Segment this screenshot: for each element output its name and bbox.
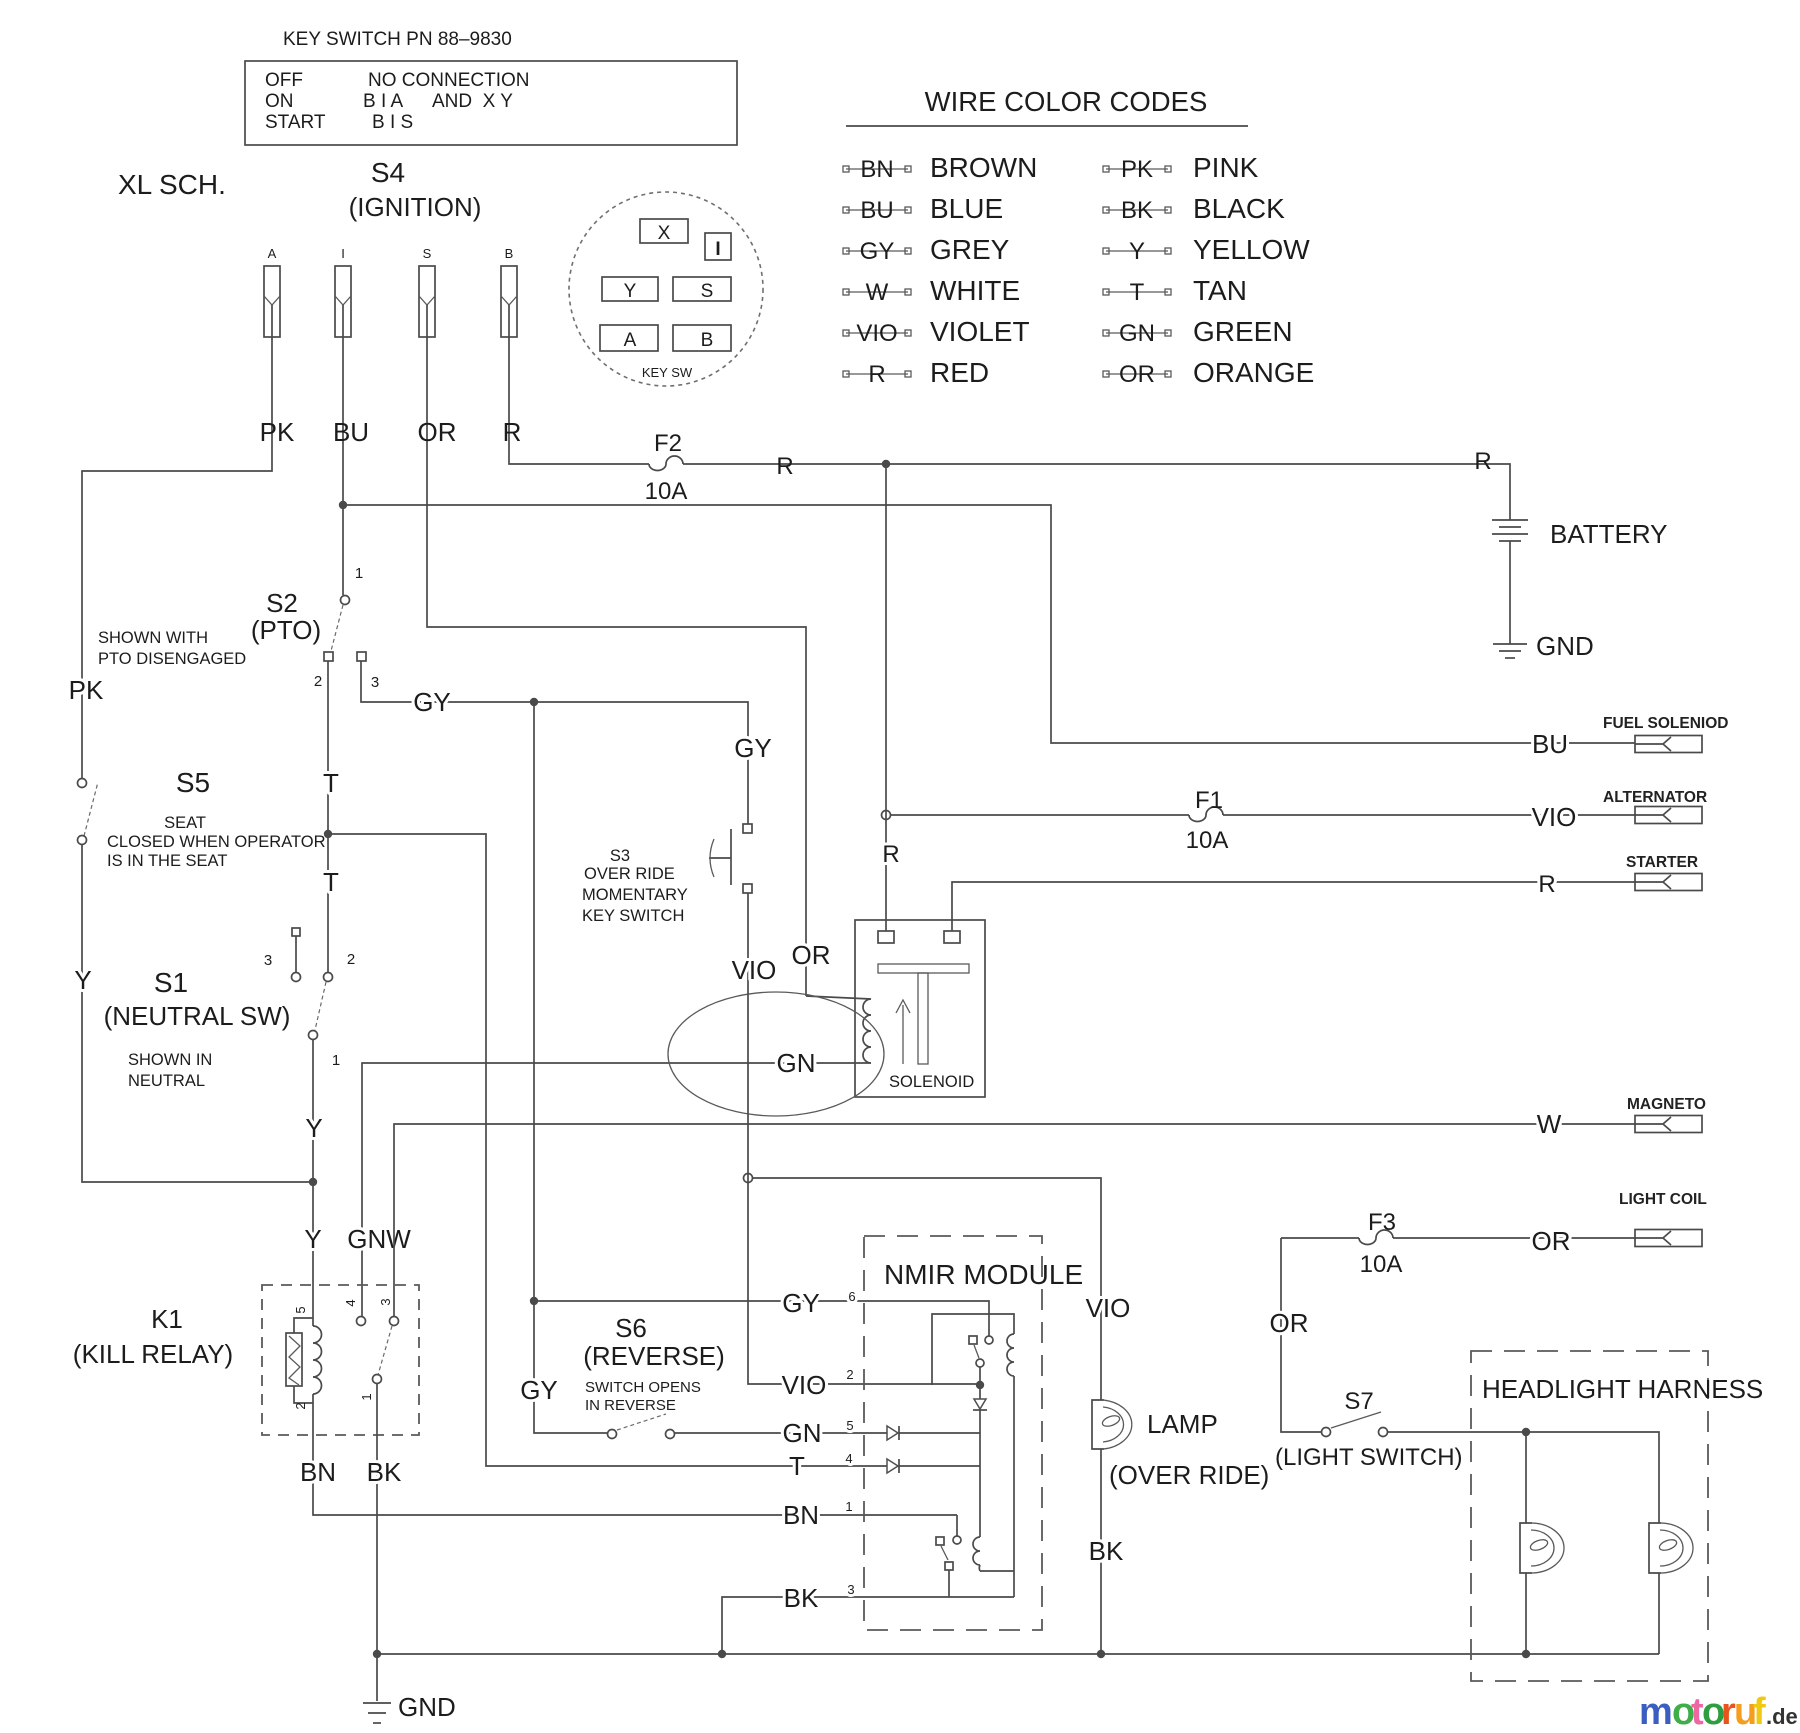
- key switch face circle: [569, 192, 763, 386]
- switch S6 left terminal: [608, 1430, 617, 1439]
- wire T branch to NMIR pin4: [328, 834, 887, 1466]
- svg-text:STARTER: STARTER: [1626, 854, 1698, 871]
- ground bus wire: [377, 1653, 1659, 1655]
- svg-text:BU: BU: [860, 197, 893, 224]
- svg-text:BK: BK: [1121, 197, 1153, 224]
- svg-text:(LIGHT SWITCH): (LIGHT SWITCH): [1275, 1444, 1463, 1471]
- svg-text:PK: PK: [1121, 156, 1153, 183]
- NMIR diode vertical: [979, 1385, 981, 1399]
- switch S1 common terminal: [309, 1031, 318, 1040]
- fuse F1: [1189, 807, 1223, 822]
- switch S6 blade: [617, 1414, 666, 1430]
- switch S2 pin 1 terminal: [341, 596, 350, 605]
- svg-text:BU: BU: [1532, 729, 1568, 759]
- ground symbol bottom: [363, 1702, 391, 1704]
- svg-text:10A: 10A: [645, 478, 688, 505]
- svg-text:R: R: [882, 841, 899, 868]
- svg-text:GY: GY: [860, 238, 895, 265]
- svg-text:GY: GY: [782, 1288, 820, 1318]
- tap circle for F1 feed: [882, 811, 891, 820]
- wire BK from K1 common to ground bus: [376, 1383, 378, 1701]
- solenoid terminal right: [944, 931, 960, 943]
- K1 resistor element: [286, 1333, 302, 1386]
- key switch table box: [245, 61, 737, 145]
- battery plates: [1492, 519, 1528, 521]
- wire BU from S4 pin I: [342, 305, 344, 595]
- svg-text:NEUTRAL: NEUTRAL: [128, 1072, 205, 1090]
- svg-text:START: START: [265, 112, 326, 133]
- junction GY: [530, 698, 538, 706]
- svg-text:B: B: [505, 246, 514, 261]
- svg-text:F1: F1: [1195, 787, 1223, 814]
- color code connector GY: [846, 250, 908, 252]
- svg-text:4: 4: [845, 1451, 852, 1466]
- junction GY pin6: [530, 1297, 538, 1305]
- svg-text:(OVER RIDE): (OVER RIDE): [1109, 1460, 1269, 1490]
- svg-text:SOLENOID: SOLENOID: [889, 1073, 974, 1091]
- svg-text:PK: PK: [260, 417, 295, 447]
- svg-text:HEADLIGHT HARNESS: HEADLIGHT HARNESS: [1482, 1374, 1763, 1404]
- wire to fuse F1: [890, 814, 1189, 816]
- svg-text:3: 3: [378, 1298, 393, 1305]
- junction lamp BK at bus: [1097, 1650, 1105, 1658]
- junction T branch: [324, 830, 332, 838]
- svg-text:RED: RED: [930, 357, 989, 388]
- wire T from S2 pin2 down to S1 pin2: [327, 661, 329, 972]
- NMIR relay1 throw square: [969, 1336, 977, 1344]
- svg-text:S3: S3: [610, 847, 630, 865]
- headlight lamp right: [1649, 1523, 1661, 1573]
- svg-text:W: W: [1537, 1109, 1562, 1139]
- key switch terminal X: [640, 219, 688, 243]
- svg-text:BLUE: BLUE: [930, 193, 1003, 224]
- junction circle VIO lamp branch: [744, 1174, 753, 1183]
- svg-text:m: m: [1639, 1691, 1673, 1733]
- junction left headlight: [1522, 1428, 1530, 1436]
- wire GN from solenoid coil to K1 pin4: [362, 1063, 871, 1317]
- svg-text:VIO: VIO: [856, 320, 897, 347]
- svg-text:LIGHT COIL: LIGHT COIL: [1619, 1191, 1707, 1208]
- wire battery to ground: [1509, 541, 1511, 644]
- svg-text:WIRE COLOR CODES: WIRE COLOR CODES: [925, 86, 1208, 117]
- svg-text:R: R: [1474, 448, 1491, 475]
- svg-text:ORANGE: ORANGE: [1193, 357, 1314, 388]
- NMIR right rail: [1013, 1376, 1015, 1597]
- NMIR relay2 common to BK: [948, 1570, 950, 1597]
- switch S5 blade: [84, 782, 98, 836]
- svg-text:2: 2: [314, 673, 322, 690]
- fuse F2: [649, 456, 683, 471]
- svg-text:S4: S4: [371, 157, 405, 188]
- svg-text:S7: S7: [1344, 1388, 1373, 1415]
- svg-text:K1: K1: [151, 1304, 183, 1334]
- color code connector VIO: [846, 332, 908, 334]
- svg-text:1: 1: [845, 1499, 852, 1514]
- svg-text:4: 4: [343, 1299, 358, 1306]
- key switch terminal I: [705, 233, 731, 260]
- switch S3 bottom terminal: [743, 884, 752, 893]
- svg-text:OR: OR: [418, 417, 457, 447]
- switch S2 blade: [331, 605, 343, 651]
- svg-text:GND: GND: [1536, 631, 1594, 661]
- K1 pin 3 terminal: [390, 1317, 399, 1326]
- svg-text:BN: BN: [860, 156, 893, 183]
- junction BK at bus: [373, 1650, 381, 1658]
- svg-text:ON: ON: [265, 91, 294, 112]
- junction BU tap: [339, 501, 347, 509]
- svg-text:B: B: [701, 330, 714, 351]
- NMIR relay1 common circle: [976, 1359, 984, 1367]
- wire GY trunk down: [534, 702, 607, 1433]
- fuse F3: [1281, 1230, 1635, 1245]
- svg-text:XL SCH.: XL SCH.: [118, 169, 226, 200]
- wire VIO to alternator: [1223, 814, 1635, 816]
- svg-text:YELLOW: YELLOW: [1193, 234, 1310, 265]
- switch S1 pin 2 terminal: [324, 973, 333, 982]
- svg-text:5: 5: [293, 1306, 308, 1313]
- K1 coil bumps: [313, 1326, 322, 1394]
- wire OR from F3 down to S7: [1281, 1238, 1321, 1432]
- svg-text:VIOLET: VIOLET: [930, 316, 1030, 347]
- svg-text:GN: GN: [1119, 320, 1155, 347]
- svg-text:2: 2: [293, 1402, 308, 1409]
- wire S7 to headlights: [1388, 1432, 1659, 1523]
- wire right lamp to bus: [1658, 1573, 1660, 1654]
- svg-text:GY: GY: [520, 1375, 558, 1405]
- svg-text:F3: F3: [1368, 1209, 1396, 1236]
- svg-text:B I S: B I S: [372, 112, 413, 133]
- solenoid plunger T bar: [878, 964, 969, 973]
- svg-text:1: 1: [332, 1052, 340, 1069]
- color code connector BN: [846, 168, 908, 170]
- svg-text:GN: GN: [783, 1418, 822, 1448]
- svg-text:OFF: OFF: [265, 70, 303, 91]
- svg-text:(NEUTRAL SW): (NEUTRAL SW): [104, 1001, 291, 1031]
- svg-text:IN REVERSE: IN REVERSE: [585, 1397, 676, 1414]
- svg-text:Y: Y: [305, 1113, 322, 1143]
- wire color codes underline: [846, 125, 1248, 127]
- svg-text:OVER RIDE: OVER RIDE: [584, 865, 675, 883]
- svg-text:A: A: [624, 330, 637, 351]
- headlight harness dashed box: [1471, 1351, 1708, 1681]
- junction Y: [309, 1178, 317, 1186]
- svg-text:BROWN: BROWN: [930, 152, 1037, 183]
- NMIR relay1 contact circle pin6: [985, 1336, 993, 1344]
- svg-text:B I A: B I A: [363, 91, 403, 112]
- svg-text:f: f: [1753, 1691, 1766, 1733]
- NMIR coil1: [1007, 1334, 1014, 1376]
- color code connector GN: [1106, 332, 1168, 334]
- svg-text:3: 3: [371, 674, 379, 691]
- switch S3 top terminal: [743, 824, 752, 833]
- svg-text:(KILL RELAY): (KILL RELAY): [73, 1339, 233, 1369]
- ellipse around GN: [668, 992, 884, 1116]
- headlight lamp left: [1520, 1523, 1532, 1573]
- svg-text:PTO DISENGAGED: PTO DISENGAGED: [98, 650, 246, 668]
- switch S3 plunger: [730, 829, 732, 885]
- svg-text:2: 2: [846, 1367, 853, 1382]
- switch S2 pin 2 terminal: [324, 652, 333, 661]
- relay K1 dashed box: [262, 1285, 419, 1435]
- svg-text:BN: BN: [300, 1457, 336, 1487]
- wire W from K1 pin3 to magneto: [394, 1124, 1635, 1317]
- svg-text:MOMENTARY: MOMENTARY: [582, 886, 688, 904]
- svg-text:BK: BK: [367, 1457, 402, 1487]
- svg-text:T: T: [789, 1451, 805, 1481]
- K1 common terminal: [373, 1375, 382, 1384]
- NMIR relay2 common square: [945, 1562, 953, 1570]
- svg-text:OR: OR: [1532, 1226, 1571, 1256]
- key switch terminal B: [673, 325, 731, 351]
- color code connector W: [846, 291, 908, 293]
- svg-text:T: T: [323, 768, 339, 798]
- svg-text:GY: GY: [734, 733, 772, 763]
- svg-text:S1: S1: [154, 967, 188, 998]
- K1 pin 4 terminal: [357, 1317, 366, 1326]
- svg-text:3: 3: [847, 1582, 854, 1597]
- svg-text:T: T: [323, 867, 339, 897]
- svg-text:TAN: TAN: [1193, 275, 1247, 306]
- svg-text:S5: S5: [176, 767, 210, 798]
- key switch terminal Y: [602, 277, 658, 301]
- switch S7 left terminal: [1322, 1428, 1331, 1437]
- svg-text:VIO: VIO: [732, 955, 777, 985]
- svg-text:NO CONNECTION: NO CONNECTION: [368, 70, 530, 91]
- svg-text:10A: 10A: [1360, 1251, 1403, 1278]
- svg-text:BLACK: BLACK: [1193, 193, 1285, 224]
- NMIR relay2 throw square: [936, 1537, 944, 1545]
- svg-text:LAMP: LAMP: [1147, 1409, 1218, 1439]
- junction R to solenoid: [882, 460, 890, 468]
- svg-text:BU: BU: [333, 417, 369, 447]
- svg-text:X: X: [658, 223, 671, 244]
- motoruf.de watermark: [1639, 1691, 1798, 1733]
- svg-text:GREY: GREY: [930, 234, 1010, 265]
- svg-text:GND: GND: [398, 1692, 456, 1722]
- svg-text:CLOSED WHEN OPERATOR: CLOSED WHEN OPERATOR: [107, 833, 326, 851]
- wire Y from S1 down into K1 coil: [312, 1040, 314, 1326]
- NMIR module dashed box: [864, 1236, 1042, 1630]
- wire PK from S4 pin A: [82, 305, 272, 779]
- svg-text:S6: S6: [615, 1313, 647, 1343]
- svg-text:F2: F2: [654, 430, 682, 457]
- svg-text:6: 6: [848, 1289, 855, 1304]
- svg-text:OR: OR: [1119, 361, 1155, 388]
- color code connector T: [1106, 291, 1168, 293]
- color code connector BK: [1106, 209, 1168, 211]
- key switch terminal A: [600, 325, 658, 351]
- ground battery: [1493, 643, 1527, 645]
- switch S2 pin 3 terminal: [357, 652, 366, 661]
- svg-text:BK: BK: [784, 1583, 819, 1613]
- svg-text:SEAT: SEAT: [164, 814, 206, 832]
- svg-text:ALTERNATOR: ALTERNATOR: [1603, 789, 1707, 806]
- svg-text:GREEN: GREEN: [1193, 316, 1293, 347]
- wire BK from lamp to bus: [1100, 1449, 1102, 1654]
- svg-text:Y: Y: [304, 1224, 321, 1254]
- svg-text:(REVERSE): (REVERSE): [583, 1341, 725, 1371]
- color code connector OR: [1106, 373, 1168, 375]
- svg-text:I: I: [715, 239, 720, 260]
- svg-text:(IGNITION): (IGNITION): [349, 192, 482, 222]
- NMIR relay2 contact circle pin1: [956, 1515, 958, 1536]
- svg-text:FUEL SOLENIOD: FUEL SOLENIOD: [1603, 715, 1728, 732]
- svg-text:1: 1: [359, 1393, 374, 1400]
- svg-text:KEY SW: KEY SW: [642, 365, 693, 380]
- svg-text:A: A: [268, 246, 277, 261]
- NMIR relay1 frame: [932, 1314, 1014, 1385]
- svg-text:SHOWN WITH: SHOWN WITH: [98, 629, 208, 647]
- svg-text:.de: .de: [1766, 1704, 1798, 1729]
- svg-text:5: 5: [846, 1418, 853, 1433]
- svg-text:PINK: PINK: [1193, 152, 1259, 183]
- wire GN from S6 to NMIR pin5: [675, 1432, 887, 1434]
- svg-text:PK: PK: [69, 675, 104, 705]
- svg-text:10A: 10A: [1186, 827, 1229, 854]
- K1 resistor branch: [294, 1318, 313, 1403]
- NMIR relay1 common to pin2: [979, 1367, 981, 1385]
- svg-text:R: R: [503, 417, 522, 447]
- switch S1 pin 3 stub: [292, 928, 300, 936]
- svg-text:S: S: [701, 281, 714, 302]
- switch S1 blade: [315, 982, 326, 1030]
- wire BU to fuel solenoid: [343, 505, 1635, 743]
- svg-text:NMIR MODULE: NMIR MODULE: [884, 1259, 1083, 1290]
- solenoid coil: [806, 996, 871, 1063]
- color code connector PK: [1106, 168, 1168, 170]
- wire left lamp to bus: [1525, 1573, 1527, 1654]
- svg-text:I: I: [341, 246, 345, 261]
- diode pin5: [887, 1426, 898, 1440]
- svg-text:S2: S2: [266, 588, 298, 618]
- switch S7 blade: [1331, 1412, 1381, 1428]
- svg-text:AND X Y: AND X Y: [432, 91, 513, 112]
- wire R starter from solenoid: [952, 882, 1635, 931]
- wire OR from S4 pin S: [427, 305, 806, 996]
- switch S7 right terminal: [1379, 1428, 1388, 1437]
- svg-text:KEY SWITCH PN 88–9830: KEY SWITCH PN 88–9830: [283, 29, 512, 50]
- wire R fuse to battery: [683, 464, 1510, 520]
- color code connector BU: [846, 209, 908, 211]
- wire VIO branch to lamp: [752, 1178, 1101, 1400]
- svg-text:1: 1: [355, 565, 363, 582]
- wire Y coil bottom to BN: [313, 1394, 957, 1515]
- svg-text:GNW: GNW: [347, 1224, 411, 1254]
- svg-text:Y: Y: [624, 281, 637, 302]
- color code connector Y: [1106, 250, 1168, 252]
- switch S6 right terminal: [666, 1430, 675, 1439]
- svg-text:SWITCH OPENS: SWITCH OPENS: [585, 1379, 701, 1396]
- lamp over ride: [1092, 1400, 1104, 1449]
- wire GY from S2 pin3: [361, 661, 748, 824]
- switch S5 bottom terminal: [78, 836, 87, 845]
- NMIR coil2: [973, 1537, 980, 1571]
- svg-text:R: R: [868, 361, 885, 388]
- svg-text:IS IN THE SEAT: IS IN THE SEAT: [107, 852, 227, 870]
- svg-text:MAGNETO: MAGNETO: [1627, 1096, 1706, 1113]
- svg-text:WHITE: WHITE: [930, 275, 1020, 306]
- svg-text:OR: OR: [1270, 1308, 1309, 1338]
- diode pin4: [887, 1459, 898, 1473]
- svg-text:BN: BN: [783, 1500, 819, 1530]
- svg-text:GY: GY: [413, 687, 451, 717]
- svg-text:BATTERY: BATTERY: [1550, 519, 1668, 549]
- switch S5 seat top terminal: [78, 779, 87, 788]
- svg-text:Y: Y: [74, 965, 91, 995]
- solenoid arrow: [896, 1000, 910, 1064]
- svg-text:KEY SWITCH: KEY SWITCH: [582, 907, 684, 925]
- svg-text:Y: Y: [1129, 238, 1145, 265]
- wire R down to solenoid terminal: [885, 464, 887, 931]
- svg-text:2: 2: [347, 951, 355, 968]
- svg-text:VIO: VIO: [782, 1370, 827, 1400]
- svg-text:S: S: [423, 246, 432, 261]
- svg-text:R: R: [776, 453, 793, 480]
- solenoid box: [855, 920, 985, 1097]
- junction BK pin3 at bus: [718, 1650, 726, 1658]
- wire GY to NMIR pin6: [534, 1301, 989, 1336]
- svg-text:(PTO): (PTO): [251, 615, 321, 645]
- wire Y left from S5 down and over to S1 leg: [82, 844, 313, 1182]
- wire VIO from S3 down: [748, 893, 980, 1384]
- svg-text:VIO: VIO: [1532, 802, 1577, 832]
- key switch terminal S: [673, 277, 731, 301]
- wire BK pin3: [722, 1597, 1014, 1654]
- color code connector R: [846, 373, 908, 375]
- svg-text:GN: GN: [777, 1048, 816, 1078]
- svg-text:T: T: [1130, 279, 1145, 306]
- NMIR relay1 blade: [974, 1345, 979, 1358]
- svg-text:BK: BK: [1089, 1536, 1124, 1566]
- svg-text:R: R: [1538, 871, 1555, 898]
- NMIR relay2 blade: [941, 1546, 948, 1560]
- K1 blade: [378, 1326, 392, 1375]
- solenoid terminal left: [878, 931, 894, 943]
- svg-text:3: 3: [264, 952, 272, 969]
- svg-text:OR: OR: [792, 940, 831, 970]
- svg-text:SHOWN IN: SHOWN IN: [128, 1051, 212, 1069]
- wire R from S4 pin B: [509, 305, 649, 464]
- svg-text:VIO: VIO: [1086, 1293, 1131, 1323]
- svg-text:W: W: [866, 279, 889, 306]
